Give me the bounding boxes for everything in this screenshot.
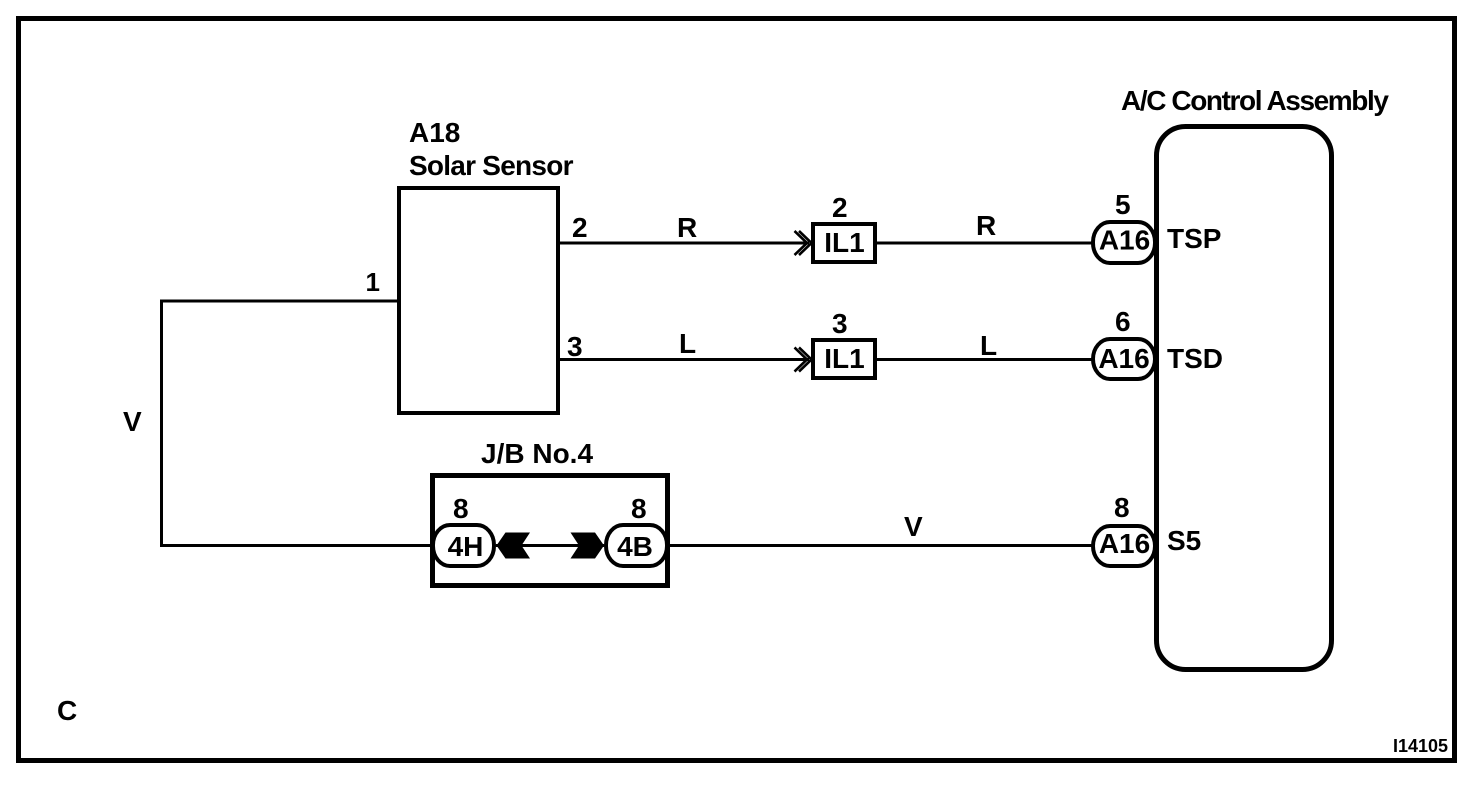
chevron arrows into IL1 row 1 (795, 231, 812, 255)
svg-text:IL1: IL1 (824, 227, 864, 258)
svg-text:C: C (57, 695, 77, 726)
svg-text:A16: A16 (1099, 225, 1150, 256)
svg-text:A18: A18 (409, 117, 460, 148)
svg-text:2: 2 (832, 192, 848, 223)
svg-text:8: 8 (453, 493, 469, 524)
wire bottom horizontal to 4H (160, 544, 433, 547)
svg-text:4H: 4H (448, 531, 484, 562)
svg-text:L: L (679, 328, 696, 359)
svg-text:2: 2 (572, 212, 588, 243)
connector oval 4B (606, 525, 667, 566)
svg-text:A16: A16 (1098, 343, 1149, 374)
arrow left (to 4H) (497, 533, 531, 559)
svg-text:6: 6 (1115, 306, 1131, 337)
svg-text:V: V (123, 406, 142, 437)
svg-text:I14105: I14105 (1393, 736, 1448, 756)
connector IL1 row 2 (813, 340, 875, 378)
arrow right (to 4B) (571, 533, 605, 559)
connector IL1 row 1 (813, 224, 875, 262)
svg-text:Solar Sensor: Solar Sensor (409, 150, 574, 181)
svg-text:V: V (904, 511, 923, 542)
wire pin1 horizontal top (162, 300, 400, 303)
svg-text:TSD: TSD (1167, 343, 1223, 374)
svg-text:3: 3 (567, 331, 583, 362)
wire IL1 to A16 row 1 (877, 242, 1093, 245)
svg-text:1: 1 (366, 267, 380, 297)
svg-text:A16: A16 (1099, 528, 1150, 559)
svg-text:L: L (980, 330, 997, 361)
svg-text:IL1: IL1 (824, 343, 864, 374)
wire V vertical (160, 300, 163, 546)
solar sensor A18 box (399, 188, 558, 413)
wire IL1 to A16 row 2 (877, 358, 1093, 361)
svg-text:R: R (976, 210, 996, 241)
connector oval A16 row 2 (1093, 339, 1155, 379)
svg-text:R: R (677, 212, 697, 243)
chevron arrows into IL1 row 2 (795, 348, 812, 372)
connector oval A16 row 1 (1093, 222, 1155, 263)
connector oval 4H (433, 525, 494, 566)
svg-text:TSP: TSP (1167, 223, 1221, 254)
wire pin3 to IL1 (560, 358, 809, 361)
svg-text:4B: 4B (617, 531, 653, 562)
svg-text:8: 8 (631, 493, 647, 524)
A/C Control Assembly box (1157, 127, 1332, 670)
svg-text:8: 8 (1114, 492, 1130, 523)
svg-text:3: 3 (832, 308, 848, 339)
wire 4B to A16 row 3 (667, 544, 1093, 547)
wire pin2 to IL1 (560, 242, 809, 245)
junction block J/B No.4 (433, 476, 668, 586)
svg-text:5: 5 (1115, 189, 1131, 220)
wire 4H to 4B (496, 544, 604, 547)
svg-text:J/B No.4: J/B No.4 (481, 438, 593, 469)
svg-text:A/C Control Assembly: A/C Control Assembly (1121, 85, 1389, 116)
connector oval A16 row 3 (1093, 526, 1155, 566)
svg-text:S5: S5 (1167, 525, 1201, 556)
